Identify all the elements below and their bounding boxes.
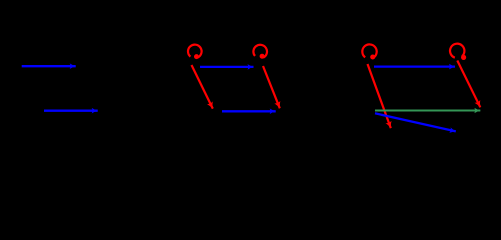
wire: left diagram, upper blue arrow xyxy=(22,65,76,67)
wire: right diagram, long left red diagonal arrow xyxy=(368,64,391,128)
node A: middle diagram, red loop over top-left object xyxy=(188,45,202,60)
wire: left diagram, lower blue arrow xyxy=(44,110,98,112)
wire: middle diagram, left red diagonal arrow xyxy=(192,65,213,109)
wire: right diagram, right red diagonal arrow xyxy=(457,61,480,108)
node D: right diagram, red loop over top-right object xyxy=(450,44,466,60)
node C: right diagram, red loop over top-left object xyxy=(362,44,376,59)
wire: right diagram, top blue arrow xyxy=(374,65,455,67)
wire: middle diagram, top blue arrow xyxy=(200,66,254,68)
wire: middle diagram, bottom blue arrow xyxy=(222,110,276,112)
wire: middle diagram, right red diagonal arrow xyxy=(263,66,280,108)
wire: right diagram, blue diagonal arrow xyxy=(375,113,456,131)
node B: middle diagram, red loop over top-right object xyxy=(253,45,267,59)
wire: right diagram, green horizontal arrow xyxy=(375,109,480,111)
